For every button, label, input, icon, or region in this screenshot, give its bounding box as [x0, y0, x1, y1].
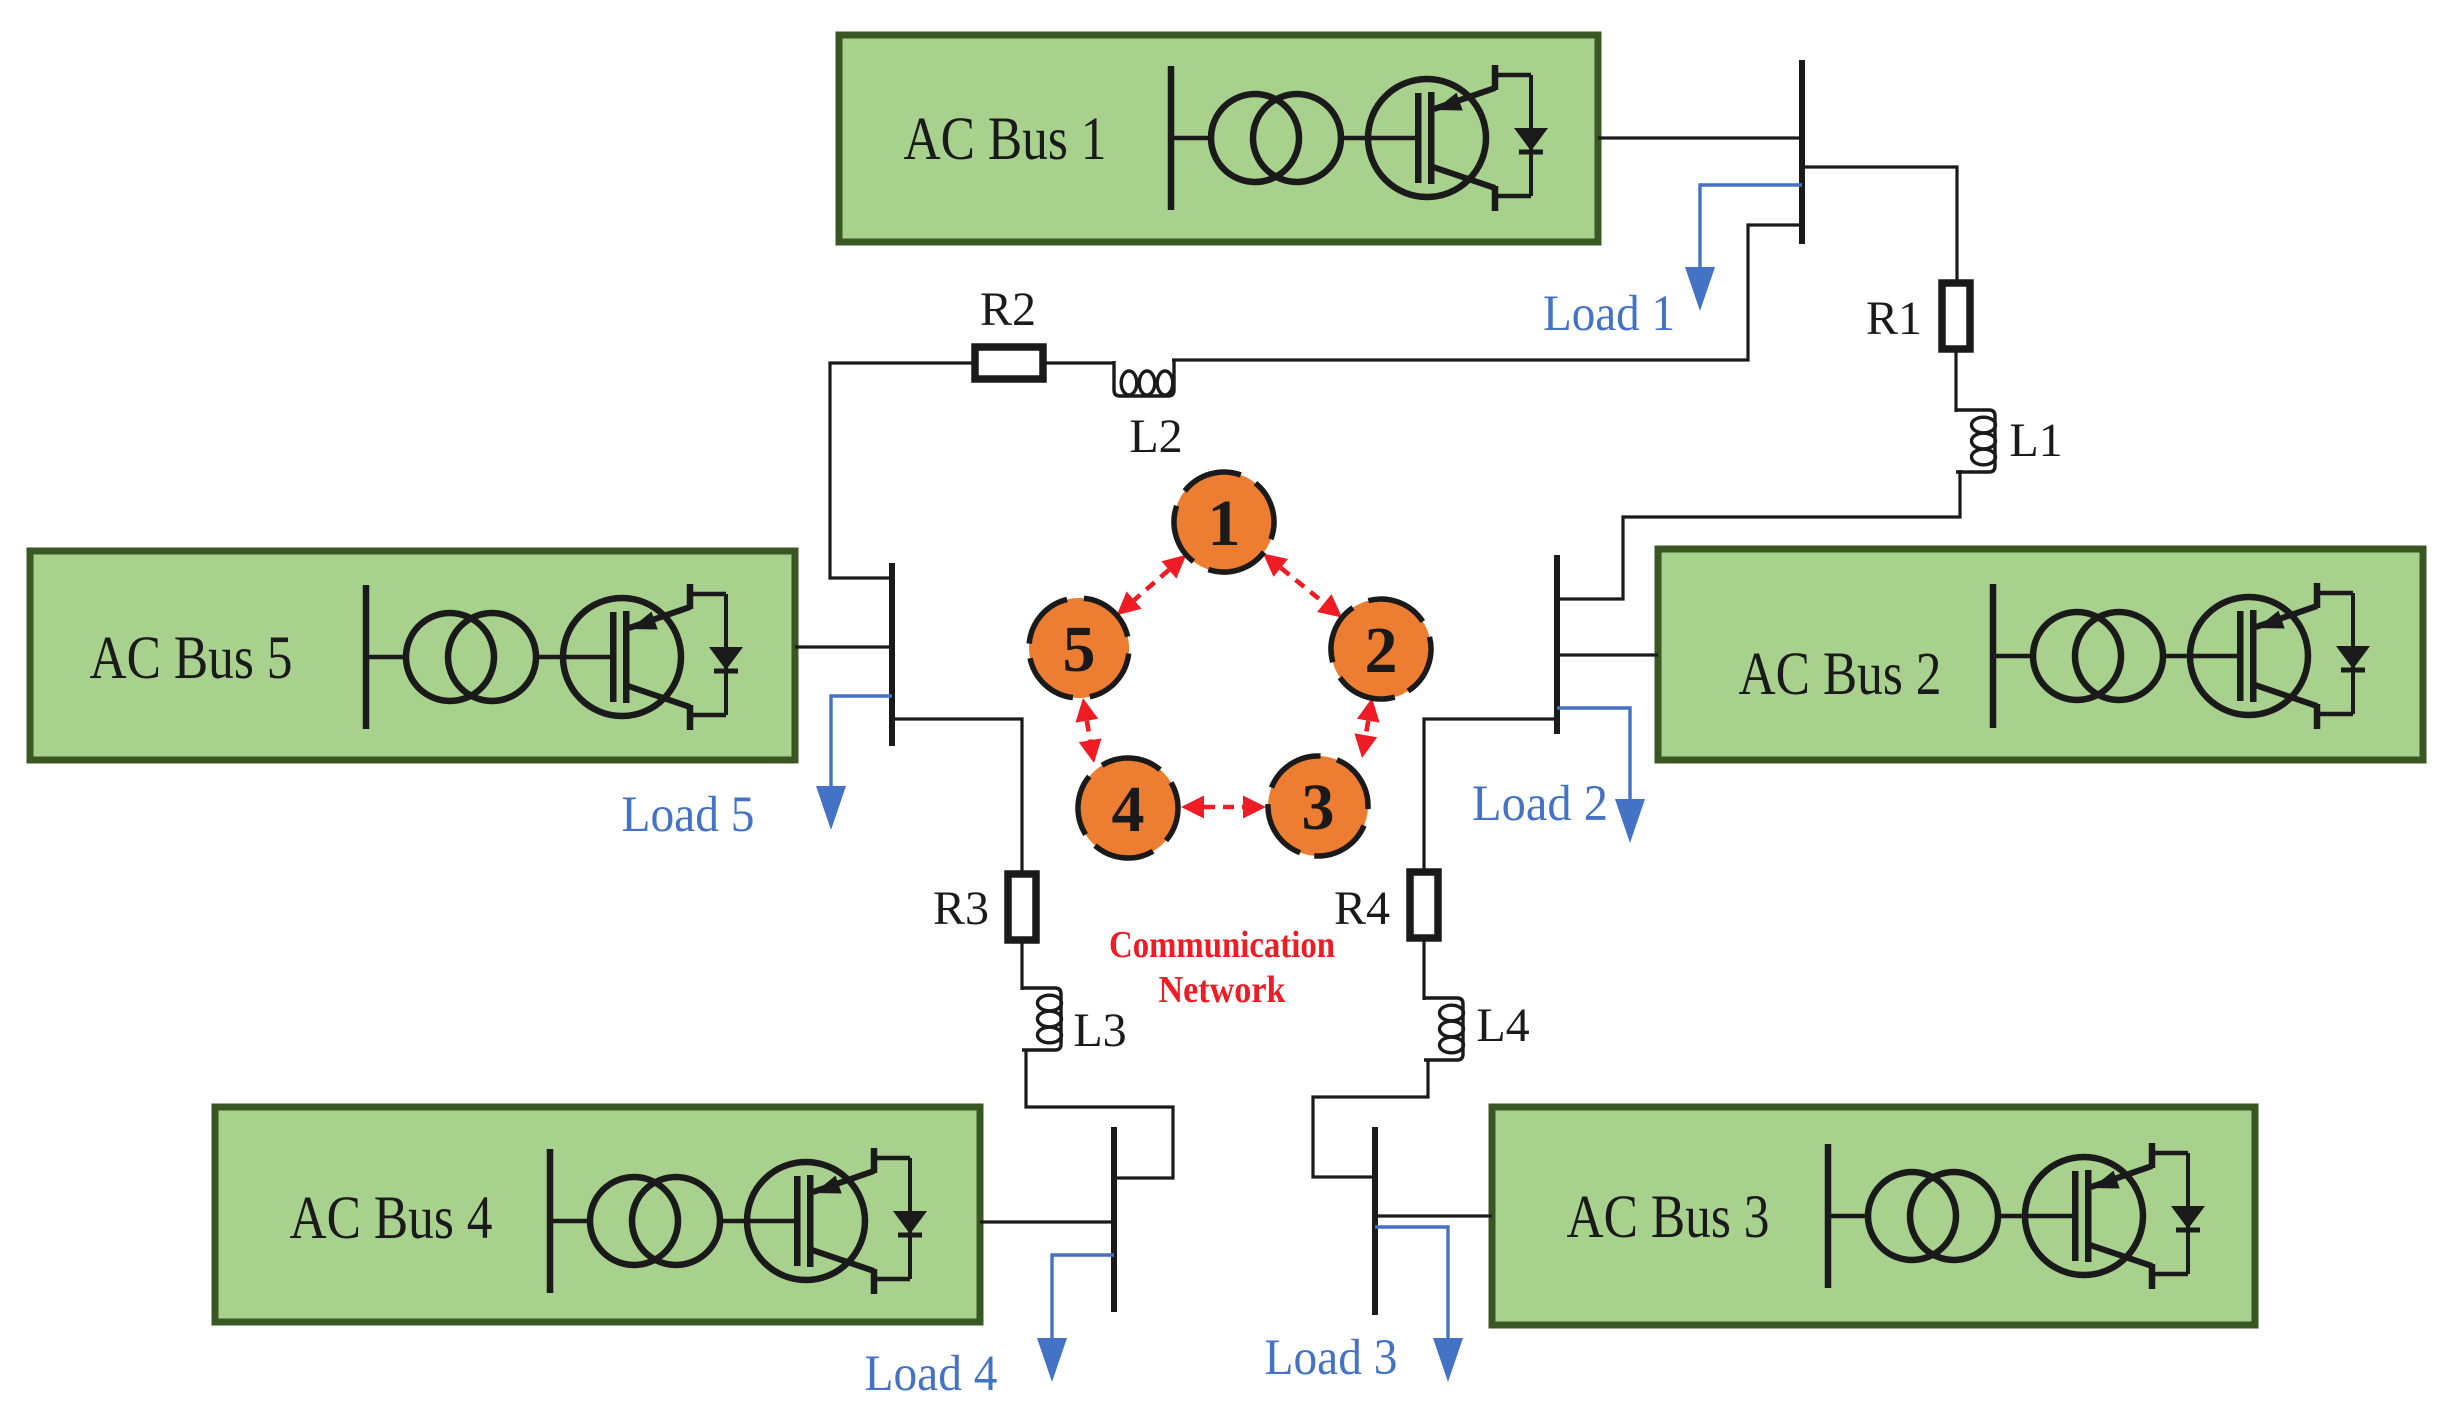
resistor R1: [1942, 283, 1970, 349]
svg-text:AC Bus 1: AC Bus 1: [904, 106, 1107, 173]
comm node 4: [1059, 739, 1197, 877]
wire bus bar 5 to R3 branch: [892, 719, 1022, 875]
comm link node2-node3: [1354, 698, 1379, 758]
wire L4 to bus bar 3: [1313, 1060, 1428, 1177]
label L4: [1476, 999, 1529, 1052]
wire R3 to L3: [1020, 940, 1023, 990]
node bus bar 1: [1799, 60, 1805, 244]
svg-text:AC Bus 4: AC Bus 4: [290, 1185, 493, 1252]
Load 4 arrow: [1037, 1255, 1114, 1382]
Load 5 arrow: [816, 696, 892, 830]
svg-text:5: 5: [1063, 613, 1096, 686]
wire R1 to L1: [1954, 349, 1957, 412]
svg-text:R2: R2: [980, 283, 1036, 336]
svg-text:AC Bus 5: AC Bus 5: [90, 625, 293, 692]
svg-text:3: 3: [1302, 771, 1335, 844]
wire L1 to bus bar 2: [1557, 470, 1960, 599]
Load 4 label: [865, 1346, 998, 1402]
svg-text:L3: L3: [1073, 1004, 1126, 1057]
wire AC Bus 4 output to bus bar 4: [980, 1220, 1114, 1223]
wire L3 to bus bar 4: [1026, 1050, 1173, 1178]
label R4: [1334, 882, 1390, 935]
wire bus bar 2 to AC Bus 2 input: [1557, 653, 1658, 656]
Load 2 label: [1472, 776, 1608, 832]
inductor L3: [1022, 988, 1062, 1050]
comm node 2: [1319, 587, 1443, 711]
svg-text:L1: L1: [2009, 414, 2062, 467]
svg-text:Communication: Communication: [1109, 924, 1335, 966]
comm node 3: [1253, 741, 1382, 870]
Load 3 label: [1265, 1330, 1398, 1386]
AC Bus 2 converter icon (bus bar, transformer, IGBT U2, diode D2): [1990, 583, 2370, 729]
comm link node1-node2: [1263, 553, 1342, 617]
AC Bus 2 label: [1739, 641, 1942, 708]
inductor L2: [1114, 360, 1174, 396]
node bus bar 4: [1111, 1127, 1117, 1312]
svg-text:L2: L2: [1129, 410, 1182, 463]
AC Bus 5 box: [30, 551, 795, 760]
inductor L4: [1424, 998, 1464, 1060]
Load 3 arrow: [1375, 1227, 1463, 1382]
wire L2 to R2: [1044, 361, 1115, 364]
inductor L1: [1956, 410, 1996, 472]
Load 1 label: [1543, 286, 1675, 342]
node bus bar 2: [1554, 555, 1560, 734]
svg-text:4: 4: [1112, 773, 1145, 846]
AC Bus 3 converter icon (bus bar, transformer, IGBT U3, diode D3): [1825, 1143, 2205, 1289]
label L3: [1073, 1004, 1126, 1057]
svg-text:1: 1: [1208, 487, 1241, 560]
label L1: [2009, 414, 2062, 467]
svg-text:Load 5: Load 5: [622, 787, 755, 843]
wire bus bar 3 to AC Bus 3 input: [1375, 1214, 1492, 1217]
AC Bus 5 label: [90, 625, 293, 692]
svg-text:R3: R3: [933, 882, 989, 935]
svg-text:L4: L4: [1476, 999, 1529, 1052]
svg-text:2: 2: [1365, 614, 1398, 687]
AC Bus 1 converter icon (bus bar, transformer, IGBT U1, diode D1): [1168, 65, 1548, 211]
node bus bar 5: [889, 563, 895, 746]
resistor R2: [975, 347, 1043, 379]
svg-text:R4: R4: [1334, 882, 1390, 935]
AC Bus 2 box: [1658, 549, 2423, 760]
AC Bus 4 box: [215, 1107, 980, 1322]
AC Bus 1 label: [904, 106, 1107, 173]
Communication Network label: [1109, 924, 1335, 1011]
Load 1 arrow: [1685, 185, 1802, 311]
resistor R3: [1008, 874, 1036, 940]
wire R2 step from bus bar 1: [1172, 225, 1802, 360]
svg-text:R1: R1: [1866, 292, 1922, 345]
svg-text:Load 4: Load 4: [865, 1346, 998, 1402]
Load 5 label: [622, 787, 755, 843]
label L2: [1129, 410, 1182, 463]
wire R4 to L4: [1422, 938, 1425, 1000]
AC Bus 3 box: [1492, 1107, 2255, 1325]
svg-text:AC Bus 2: AC Bus 2: [1739, 641, 1942, 708]
AC Bus 4 converter icon (bus bar, transformer, IGBT U4, diode D4): [547, 1148, 927, 1294]
wire bus bar 2 to R4 branch: [1424, 719, 1557, 873]
AC Bus 1 box: [839, 35, 1598, 242]
wire R2 to bus bar 5: [830, 363, 976, 578]
comm node 1: [1154, 452, 1294, 592]
comm link node4-node3: [1181, 796, 1266, 819]
comm link node1-node5: [1117, 555, 1187, 615]
comm node 5: [1025, 594, 1133, 702]
wire AC Bus 1 output to bus bar 1: [1598, 136, 1802, 139]
Load 2 arrow: [1557, 708, 1645, 843]
wire AC Bus 5 output to bus bar 5: [795, 645, 892, 648]
label R1: [1866, 292, 1922, 345]
AC Bus 5 converter icon (bus bar, transformer, IGBT U5, diode D5): [363, 584, 743, 730]
comm link node5-node4: [1076, 698, 1102, 763]
label R3: [933, 882, 989, 935]
node bus bar 3: [1372, 1127, 1378, 1315]
label R2: [980, 283, 1036, 336]
svg-text:Load 3: Load 3: [1265, 1330, 1398, 1386]
svg-text:Load 2: Load 2: [1472, 776, 1608, 832]
wire bus bar 1 to R1 branch: [1802, 167, 1957, 284]
resistor R4: [1410, 872, 1438, 938]
svg-text:Load 1: Load 1: [1543, 286, 1675, 342]
svg-text:AC Bus 3: AC Bus 3: [1567, 1184, 1770, 1251]
svg-text:Network: Network: [1159, 969, 1287, 1011]
AC Bus 3 label: [1567, 1184, 1770, 1251]
AC Bus 4 label: [290, 1185, 493, 1252]
